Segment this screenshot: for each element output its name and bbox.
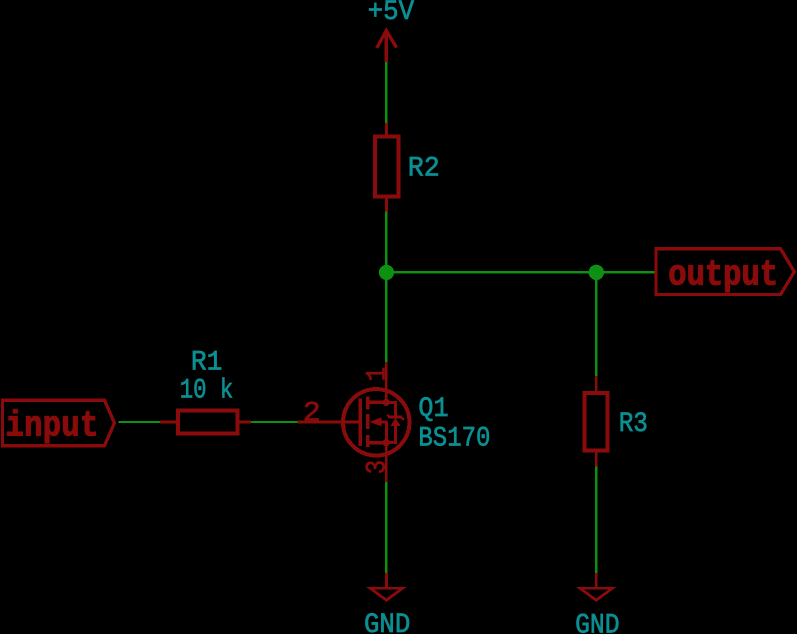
svg-text:R3: R3: [619, 408, 648, 440]
svg-text:BS170: BS170: [418, 422, 490, 454]
svg-text:output: output: [668, 255, 778, 296]
svg-text:R2: R2: [408, 152, 440, 184]
svg-text:GND: GND: [364, 609, 410, 634]
svg-text:10 k: 10 k: [180, 374, 234, 406]
svg-text:GND: GND: [575, 609, 620, 634]
svg-text:R1: R1: [191, 346, 223, 378]
svg-text:1: 1: [361, 367, 393, 381]
svg-text:3: 3: [361, 460, 393, 474]
svg-text:+5V: +5V: [368, 0, 415, 28]
svg-text:Q1: Q1: [418, 393, 448, 425]
svg-text:input: input: [6, 405, 99, 446]
svg-text:2: 2: [303, 397, 321, 429]
